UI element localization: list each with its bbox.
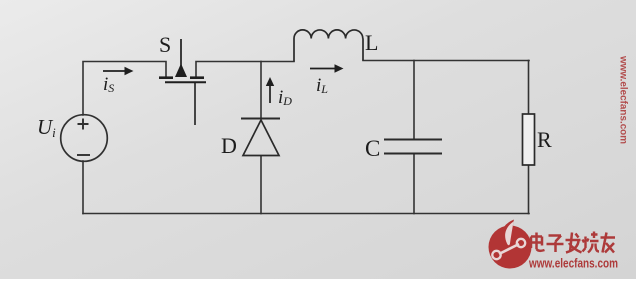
trace pad right <box>517 239 525 247</box>
inductor L <box>294 30 363 62</box>
current arrow iL <box>310 64 344 72</box>
wire inductor to output node <box>363 60 529 62</box>
watermark text fa (发) <box>566 233 582 253</box>
MOSFET arrow <box>175 64 187 78</box>
wire bottom rail <box>83 213 529 215</box>
gate lead <box>180 39 182 66</box>
wire diode branch lower <box>260 156 262 214</box>
wire right vertical to resistor <box>528 61 530 115</box>
svg-text:S: S <box>159 32 171 57</box>
svg-text:www.elecfans.com: www.elecfans.com <box>618 55 629 144</box>
body stub down <box>194 83 196 125</box>
current arrow iS <box>103 67 134 75</box>
drain bar right <box>190 76 204 79</box>
svg-text:R: R <box>537 127 552 152</box>
resistor R <box>523 114 535 165</box>
wire left vertical below source <box>82 161 84 214</box>
wire capacitor branch upper <box>413 61 415 140</box>
watermark text zi (子) <box>547 236 564 253</box>
voltage source Ui <box>61 115 108 162</box>
trace pad left <box>492 251 500 259</box>
capacitor C <box>384 140 442 154</box>
current arrow iD <box>266 77 274 103</box>
svg-text:D: D <box>221 133 237 158</box>
watermark text dian (电) <box>531 233 545 251</box>
svg-text:C: C <box>365 136 380 161</box>
watermark text you (友) <box>601 233 616 253</box>
svg-text:www.elecfans.com: www.elecfans.com <box>528 256 618 271</box>
wire diode branch upper <box>260 62 262 119</box>
diode D <box>241 119 280 156</box>
wire resistor to bottom rail <box>528 165 530 214</box>
svg-text:L: L <box>365 30 378 55</box>
leaf highlight <box>505 222 513 246</box>
wire MOSFET drain to inductor <box>196 62 294 78</box>
wire capacitor branch lower <box>413 154 415 214</box>
source bar left <box>159 76 173 79</box>
trace line <box>499 244 519 254</box>
channel bar <box>165 81 206 83</box>
watermark text shao (烧) <box>583 232 600 253</box>
watermark logo elecfans droplet <box>489 220 532 269</box>
transistor S (MOSFET switch) <box>159 39 206 125</box>
wire top-left from source to MOSFET <box>83 62 166 116</box>
